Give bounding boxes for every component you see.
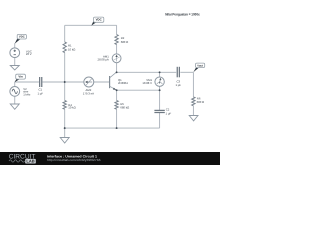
svg-text:Nilai Penguatan = 1000x: Nilai Penguatan = 1000x: [165, 12, 200, 16]
svg-text:AM2: AM2: [86, 89, 92, 92]
svg-text:28.08 µA: 28.08 µA: [98, 58, 109, 61]
svg-text:680 Ω: 680 Ω: [121, 41, 129, 44]
svg-text:C3: C3: [177, 80, 181, 83]
svg-text:C1: C1: [39, 88, 43, 91]
svg-text:LAB: LAB: [26, 159, 34, 163]
svg-text:10.88 V: 10.88 V: [142, 82, 152, 85]
svg-text:VDC: VDC: [19, 35, 25, 38]
svg-text:AM1: AM1: [103, 55, 109, 58]
svg-text:Vout: Vout: [197, 64, 203, 67]
svg-text:Q1: Q1: [118, 79, 122, 82]
svg-text:R4: R4: [68, 104, 72, 107]
svg-text:20 V: 20 V: [26, 53, 32, 56]
svg-text:R5: R5: [120, 103, 124, 106]
svg-text:1 µF: 1 µF: [175, 84, 181, 87]
svg-text:R2: R2: [121, 37, 125, 40]
svg-text:680 Ω: 680 Ω: [197, 101, 205, 104]
svg-text:179.3 nA: 179.3 nA: [83, 92, 94, 95]
svg-text:680 kΩ: 680 kΩ: [120, 106, 129, 109]
svg-text:sine: sine: [23, 90, 28, 93]
svg-text:10 kΩ: 10 kΩ: [68, 106, 75, 109]
svg-text:VDC: VDC: [96, 18, 102, 21]
svg-text:1 µF: 1 µF: [166, 112, 172, 115]
svg-text:VM1: VM1: [146, 79, 152, 82]
svg-text:10 kΩ: 10 kΩ: [68, 48, 75, 51]
svg-text:1 µF: 1 µF: [37, 92, 43, 95]
svg-text:R1: R1: [68, 44, 72, 47]
svg-text:Vin: Vin: [18, 75, 22, 78]
svg-text:http://circuitlab.com/c/b32y39: http://circuitlab.com/c/b32y39f627b6: [47, 158, 101, 162]
svg-text:R6: R6: [197, 97, 201, 100]
svg-text:interface : Unnamed Circuit 1: interface : Unnamed Circuit 1: [47, 154, 97, 158]
svg-text:C2: C2: [166, 108, 170, 111]
svg-text:1 kHz: 1 kHz: [23, 93, 30, 96]
svg-text:2N3904: 2N3904: [118, 82, 128, 85]
